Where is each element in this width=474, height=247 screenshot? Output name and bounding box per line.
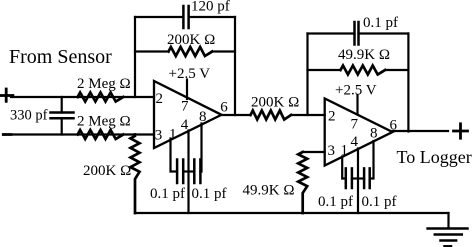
capacitor C 0.1pf (U2 left) bbox=[346, 168, 352, 188]
svg-text:2: 2 bbox=[156, 91, 164, 107]
resistor R 200K (feedback1) bbox=[169, 47, 213, 56]
svg-text:200K Ω: 200K Ω bbox=[167, 32, 215, 48]
resistor R 49.9K to ground bbox=[298, 152, 307, 213]
svg-text:8: 8 bbox=[199, 109, 207, 125]
svg-text:7: 7 bbox=[181, 99, 189, 115]
wire feedback1 resistor branch left bbox=[135, 50, 169, 52]
wire feedback1 right vertical bbox=[234, 17, 236, 115]
wire feedback2 top branch right bbox=[359, 32, 409, 34]
svg-text:200K Ω: 200K Ω bbox=[83, 163, 131, 179]
wire feedback1 top branch right bbox=[189, 16, 235, 18]
capacitor C 330pf bbox=[51, 97, 74, 135]
capacitor C 120pf bbox=[183, 6, 188, 28]
wire feedback2 resistor branch left bbox=[308, 69, 341, 71]
wire feedback2 top branch left bbox=[308, 32, 355, 34]
resistor R 200K to ground bbox=[131, 135, 140, 214]
capacitor C 0.1pf (U1 left) bbox=[177, 160, 183, 184]
wire U2 pin1 down bbox=[342, 157, 346, 179]
svg-text:+2.5 V: +2.5 V bbox=[169, 66, 211, 82]
svg-text:0.1 pf: 0.1 pf bbox=[318, 194, 353, 210]
svg-text:+2.5 V: +2.5 V bbox=[335, 83, 377, 99]
wire rail to ground symbol bbox=[447, 213, 449, 228]
svg-text:2: 2 bbox=[328, 109, 336, 125]
wire feedback2 right vertical bbox=[407, 34, 409, 132]
svg-text:7: 7 bbox=[351, 117, 359, 133]
svg-text:0.1 pf: 0.1 pf bbox=[363, 15, 398, 31]
output terminal + bbox=[454, 124, 468, 138]
svg-text:0.1 pf: 0.1 pf bbox=[362, 194, 397, 210]
wire U1 output row bbox=[222, 114, 251, 116]
svg-text:3: 3 bbox=[328, 143, 336, 159]
wire U2 pin7 supply bbox=[356, 96, 358, 115]
wire U2 pin3 row bbox=[303, 151, 325, 153]
wire feedback1 top branch left bbox=[135, 16, 183, 18]
wire feedback1 left vertical bbox=[134, 17, 136, 97]
svg-text:49.9K Ω: 49.9K Ω bbox=[338, 47, 390, 63]
wire feedback2 resistor branch right bbox=[385, 69, 408, 71]
wire + input row bbox=[11, 96, 154, 98]
svg-text:49.9K Ω: 49.9K Ω bbox=[243, 183, 295, 199]
op-amp U2 bbox=[325, 99, 393, 166]
capacitor C 0.1pf (U1 right) bbox=[194, 160, 200, 184]
wire feedback1 resistor branch right bbox=[212, 50, 235, 52]
svg-text:3: 3 bbox=[155, 128, 163, 144]
wire U1 pin4 down bbox=[187, 131, 189, 214]
wire U2 output bbox=[393, 130, 449, 132]
wire interstage right bbox=[291, 114, 325, 116]
wire - input row bbox=[13, 133, 154, 135]
svg-text:2 Meg Ω: 2 Meg Ω bbox=[77, 76, 131, 92]
svg-text:120 pf: 120 pf bbox=[191, 0, 230, 15]
wire U1 pin8 down bbox=[200, 124, 201, 172]
wire U1 pin7 supply bbox=[186, 80, 188, 100]
svg-text:8: 8 bbox=[370, 126, 378, 142]
wire U2 pin4 down bbox=[357, 149, 359, 214]
resistor R 2Meg (top) bbox=[78, 93, 124, 102]
svg-text:0.1 pf: 0.1 pf bbox=[150, 186, 185, 202]
input terminal - bbox=[3, 133, 11, 136]
wire cap stubs (U2) bbox=[352, 177, 364, 179]
svg-text:330 pf: 330 pf bbox=[10, 108, 48, 124]
wire U1 pin1 down bbox=[171, 139, 178, 172]
input terminal + bbox=[0, 89, 13, 101]
svg-text:200K Ω: 200K Ω bbox=[251, 95, 299, 111]
wire ground rail bbox=[135, 212, 449, 214]
resistor R 2Meg (bottom) bbox=[78, 130, 124, 139]
op-amp U1 bbox=[154, 81, 222, 148]
capacitor C 0.1pf (U2 right) bbox=[364, 168, 370, 188]
svg-text:0.1 pf: 0.1 pf bbox=[192, 186, 227, 202]
capacitor C 0.1pf (feedback2) bbox=[355, 22, 359, 45]
wire U2 pin8 down bbox=[370, 141, 374, 179]
svg-text:2 Meg Ω: 2 Meg Ω bbox=[77, 114, 131, 130]
resistor R 200K (interstage) bbox=[251, 111, 292, 120]
svg-text:6: 6 bbox=[220, 100, 228, 116]
svg-text:To Logger: To Logger bbox=[397, 147, 472, 167]
resistor R 49.9K (feedback2) bbox=[341, 66, 386, 75]
svg-text:From Sensor: From Sensor bbox=[9, 46, 112, 68]
wire feedback2 left vertical bbox=[306, 34, 308, 116]
ground bbox=[428, 229, 468, 247]
wire cap stubs (U1) bbox=[183, 170, 194, 172]
